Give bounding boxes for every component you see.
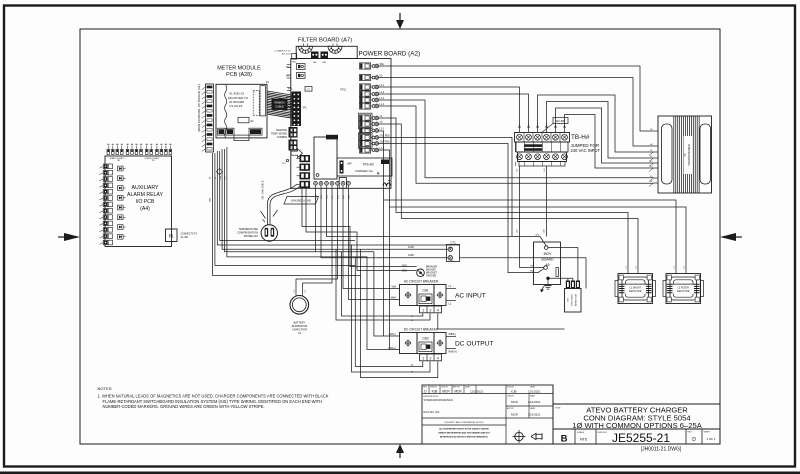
A4 relay symbols K1-K8	[118, 166, 126, 239]
power board A2 outline	[291, 59, 391, 189]
title block property notice	[438, 421, 490, 439]
wire CB1 terminal 1 riser	[342, 252, 423, 316]
svg-text:CB1: CB1	[422, 289, 429, 293]
wire MOV junction to lightning arrestor terminal 1	[548, 278, 573, 280]
svg-text:1 OF 1: 1 OF 1	[706, 437, 716, 441]
svg-text:COMPENSATION: COMPENSATION	[237, 231, 258, 235]
wire TB-H# terminal 4 to transformer X2	[547, 102, 654, 159]
svg-text:WB5(-): WB5(-)	[449, 333, 457, 336]
TB-H# stub labels	[519, 124, 566, 126]
A1 edge connector strip	[202, 84, 214, 152]
svg-text:L1-1: L1-1	[380, 104, 385, 106]
power board left edge pins	[287, 65, 291, 108]
svg-text:BE REPRODUCED WITHOUT WRITTEN: BE REPRODUCED WITHOUT WRITTEN PERMISSION…	[440, 437, 488, 439]
power board bottom connectors	[314, 178, 351, 189]
svg-text:AC CIRCUIT BREAKER: AC CIRCUIT BREAKER	[404, 280, 439, 284]
svg-text:AUXILIARY: AUXILIARY	[131, 185, 159, 191]
svg-text:L2-0: L2-0	[380, 148, 385, 150]
TB-H# jumper bars	[525, 144, 543, 151]
wire power board to inductor L2 lead 1	[378, 131, 676, 271]
A4 P1 callout	[181, 234, 198, 240]
temp probe label	[237, 227, 258, 238]
wire TB-H# terminal 5 to transformer X3	[556, 108, 654, 163]
power supply P/S-A2	[337, 158, 392, 176]
svg-text:ALARM RELAY: ALARM RELAY	[127, 192, 163, 198]
svg-text:CB2: CB2	[422, 337, 429, 341]
lightning arrestor terminals	[566, 281, 580, 289]
wire bundle to CB2 pad GN5+	[227, 147, 400, 350]
testpoint TP3	[285, 73, 305, 79]
MOV board A9	[534, 242, 561, 285]
A28 dashed rect	[253, 91, 259, 116]
wire CB2 terminal 1 riser	[355, 257, 423, 367]
remote temp sense label	[271, 129, 287, 139]
wire MOV to lightning arrestor terminal 3	[548, 248, 578, 281]
svg-text:H1B: H1B	[530, 265, 535, 267]
svg-text:BREAKER: BREAKER	[426, 266, 437, 269]
svg-text:1: 1	[422, 309, 424, 313]
svg-text:4: 4	[437, 357, 439, 361]
svg-text:GN0 POS: GN0 POS	[380, 141, 391, 143]
wire power board stub to MOV bus	[327, 188, 541, 236]
svg-text:12/1/2021: 12/1/2021	[528, 390, 541, 394]
CB2 right wire labels	[446, 333, 457, 353]
svg-text:DWG NO: DWG NO	[598, 432, 608, 434]
svg-text:MOV: MOV	[544, 252, 552, 256]
lower connector stack	[297, 155, 311, 188]
svg-text:(A4): (A4)	[140, 206, 150, 212]
svg-text:▯HP: ▯HP	[347, 163, 352, 166]
svg-text:A1-J08: A1-J08	[181, 236, 189, 239]
svg-text:2W / 24in CABLE: 2W / 24in CABLE	[262, 180, 265, 199]
svg-text:PROBE A10: PROBE A10	[244, 234, 259, 238]
filter board terminal TB2	[321, 52, 329, 64]
title block description cell	[424, 396, 454, 414]
wire power board stub to capacitor C1 lead B	[296, 188, 338, 287]
filter board toroid L-A	[299, 44, 313, 54]
svg-text:L1 SHUNT: L1 SHUNT	[629, 287, 641, 290]
svg-text:L2-1: L2-1	[380, 85, 385, 87]
svg-text:[JH0011-21.DWG]: [JH0011-21.DWG]	[641, 447, 682, 453]
svg-text:DRN BY: DRN BY	[430, 387, 438, 389]
title text	[555, 406, 703, 431]
svg-text:MAIN CONTROL PC BOARD (A1): MAIN CONTROL PC BOARD (A1)	[197, 84, 201, 131]
svg-text:ELIMINATOR: ELIMINATOR	[292, 324, 308, 328]
svg-text:FLAME-RETARDANT SWITCHBOARD IN: FLAME-RETARDANT SWITCHBOARD INSULATION S…	[103, 399, 323, 404]
testpoint TP5 and C2	[288, 87, 312, 92]
svg-text:ARRESTOR: ARRESTOR	[575, 294, 578, 307]
size / scale / dwg no cells	[561, 431, 716, 445]
centering arrow bottom	[396, 444, 404, 458]
wire L2 node down to CB2 pad	[383, 200, 385, 336]
svg-text:MCR: MCR	[511, 413, 519, 417]
svg-text:HEREOF ARE RESERVED AND THIS D: HEREOF ARE RESERVED AND THIS DRAWING MAY…	[438, 432, 490, 435]
ferrite bead	[383, 180, 391, 186]
wire CB2 terminal 4 riser	[361, 249, 438, 377]
centering arrow top	[396, 13, 404, 29]
svg-text:L2 FILTER: L2 FILTER	[678, 287, 690, 290]
inductor L1 shunt	[615, 265, 656, 303]
lightning arrestor A-LA	[565, 289, 582, 313]
svg-text:ALL PROPRIETARY RIGHTS IN THE: ALL PROPRIETARY RIGHTS IN THE SUBJECT MA…	[439, 428, 489, 431]
temp probe strain relief	[261, 210, 278, 222]
svg-text:CAPACITOR: CAPACITOR	[292, 328, 307, 332]
svg-text:CHK BY: CHK BY	[507, 387, 515, 389]
block arrow symbol	[291, 149, 303, 158]
svg-text:101B: 101B	[408, 246, 414, 249]
wire number labels left bundle	[210, 175, 227, 202]
temperature compensation probe A10	[261, 225, 277, 241]
wire unused gnd stack to breaker bracket ground 1	[302, 188, 417, 267]
circuit breaker CB2	[400, 333, 447, 361]
svg-text:DATE: DATE	[530, 386, 536, 389]
svg-text:STANDARD DRAWINGS.: STANDARD DRAWINGS.	[424, 398, 454, 402]
wire CT1 to MOV board	[460, 258, 587, 289]
svg-text:12/1/2021: 12/1/2021	[528, 400, 541, 404]
svg-text:2: 2	[430, 309, 432, 313]
svg-text:P/S-A2: P/S-A2	[363, 163, 374, 167]
svg-text:JUMPER: JUMPER	[277, 136, 287, 139]
transformer T1	[658, 116, 712, 193]
svg-text:KJB: KJB	[511, 390, 517, 394]
svg-text:GN1 RED: GN1 RED	[380, 135, 391, 137]
MOV top terminal	[544, 246, 548, 250]
svg-text:CONNECTS TO: CONNECTS TO	[275, 50, 291, 52]
svg-text:H4A: H4A	[530, 270, 535, 273]
svg-text:A9: A9	[545, 263, 549, 267]
centering arrow right	[720, 233, 742, 241]
svg-text:TP10: TP10	[340, 89, 346, 92]
testpoint TP4	[285, 64, 305, 70]
svg-text:2: 2	[430, 357, 432, 361]
wire power board stub 24v to CT1 terminal 2	[321, 188, 448, 257]
MOV ground symbol	[540, 280, 552, 293]
svg-text:DESCRIPTION: DESCRIPTION	[424, 396, 439, 398]
svg-text:INDUCTOR: INDUCTOR	[629, 290, 642, 293]
filter board toroid L-B	[328, 44, 342, 54]
svg-text:C1▬: C1▬	[449, 247, 453, 249]
wire bundle bus B	[215, 153, 355, 265]
CB2 stub wire labels	[411, 364, 414, 373]
svg-text:DC CIRCUIT BREAKER: DC CIRCUIT BREAKER	[404, 328, 439, 332]
svg-text:C1-: C1-	[305, 289, 307, 292]
ribbon cable label	[272, 99, 288, 111]
current transformer CT1	[447, 240, 460, 261]
svg-text:FILTER BOARD (A7): FILTER BOARD (A7)	[298, 38, 352, 44]
power board bottom wire labels	[315, 194, 350, 199]
wire Y2 power board to inductor L1 lead 2	[378, 124, 638, 271]
svg-text:TITLE: TITLE	[555, 408, 561, 410]
svg-text:P1: P1	[303, 106, 307, 110]
svg-text:L2-1: L2-1	[380, 128, 385, 130]
wire power board to TB-H# terminal 1	[378, 87, 519, 127]
svg-text:METER MODULE: METER MODULE	[217, 66, 261, 72]
A28 note text	[228, 92, 249, 109]
ribbon cable	[267, 91, 292, 118]
relay K block	[314, 135, 338, 179]
splice diamond	[216, 168, 222, 174]
svg-text:C1: C1	[298, 331, 302, 335]
svg-text:V8A: V8A	[380, 63, 385, 66]
svg-text:DATE: DATE	[530, 394, 536, 397]
svg-text:PROPERTY AND CONFIDENTIAL NOTI: PROPERTY AND CONFIDENTIAL NOTICE	[445, 421, 485, 424]
svg-text:TB2: TB2	[117, 160, 120, 162]
bracket ground labels	[402, 264, 408, 272]
TB-H# bottom wire labels H1 H4	[517, 168, 547, 233]
svg-text:I/O PCB: I/O PCB	[135, 199, 155, 205]
svg-text:CABLE: CABLE	[275, 104, 284, 108]
A4 top terminal labels	[110, 157, 160, 162]
power board output connectors	[359, 63, 379, 153]
svg-text:LIGHTNING: LIGHTNING	[572, 294, 574, 306]
svg-text:NUMBER-CODED MARKERS. GROUND W: NUMBER-CODED MARKERS. GROUND WIRES ARE G…	[103, 404, 265, 409]
svg-text:PCB (A28): PCB (A28)	[226, 72, 252, 78]
svg-text:CT1: CT1	[450, 240, 456, 244]
filter board gnd lug	[292, 54, 297, 64]
svg-text:APP BY: APP BY	[453, 386, 461, 389]
wire power board to TB-H# terminal 2	[378, 94, 528, 127]
svg-text:P1 AS P2: P1 AS P2	[230, 104, 243, 108]
svg-text:GROUND: GROUND	[426, 276, 437, 278]
A28 S2 component	[238, 117, 254, 123]
wire GN0 power board to MOV board terminal H4A	[378, 144, 544, 273]
wire bundle bus C	[217, 151, 460, 245]
svg-text:1: 1	[422, 357, 424, 361]
CT1 wire labels	[408, 246, 414, 257]
svg-text:MAGNET: MAGNET	[426, 269, 436, 272]
wire arrestor terminal 2 spur	[572, 278, 574, 280]
TP7 testpoint	[282, 159, 289, 165]
W2 JMP callout	[541, 118, 568, 134]
svg-text:MCR: MCR	[454, 389, 462, 393]
wire TB-H# bottom H4 drop	[545, 166, 547, 237]
notes text	[98, 386, 329, 409]
svg-text:KJB: KJB	[432, 389, 438, 393]
svg-text:C2▬: C2▬	[449, 260, 453, 262]
svg-text:JE5255-21: JE5255-21	[612, 431, 670, 445]
page bottom edge strip	[0, 472, 800, 474]
A4 top terminal strip	[107, 144, 172, 154]
svg-text:APP BY: APP BY	[507, 407, 515, 410]
svg-text:L1-0: L1-0	[380, 92, 385, 94]
svg-text:NOTES:: NOTES:	[98, 386, 113, 391]
A4 connector P1	[166, 229, 178, 242]
transformer pins	[649, 129, 658, 186]
meter module PCB A28 outline	[216, 84, 267, 138]
svg-text:C2: C2	[307, 89, 309, 91]
projection symbols	[513, 430, 543, 443]
wire CB2 terminal 2 riser	[352, 245, 431, 372]
A4 left terminal column	[99, 164, 112, 245]
svg-text:4: 4	[437, 309, 439, 313]
C1 label	[292, 321, 308, 336]
svg-text:SCALE: SCALE	[577, 431, 585, 434]
bracket ground note	[426, 266, 437, 278]
svg-text:D: D	[692, 437, 696, 443]
wire bundle to CT1 terminal 1	[222, 149, 448, 249]
CB1 left wire labels	[391, 286, 397, 300]
svg-text:INDUCTOR: INDUCTOR	[677, 290, 690, 293]
svg-text:NO: NO	[568, 298, 570, 302]
wire unused gnd stack to breaker bracket ground 2	[306, 188, 417, 271]
svg-text:A7-J1,J9: A7-J1,J9	[282, 53, 291, 56]
wire L2 node down to CB2 pad 2	[389, 207, 391, 350]
wire power board stub gnd	[315, 188, 317, 252]
svg-text:BRACKET: BRACKET	[426, 272, 437, 275]
filter board A7 outline	[296, 46, 357, 58]
svg-text:UNUSED GND: UNUSED GND	[291, 199, 312, 203]
svg-text:DC OUTPUT: DC OUTPUT	[455, 341, 493, 348]
svg-text:RW5(+): RW5(+)	[449, 350, 457, 353]
svg-text:CONNECTS TO: CONNECTS TO	[181, 234, 198, 236]
svg-text:104B: 104B	[408, 254, 414, 257]
svg-text:DATE: DATE	[465, 386, 471, 389]
CB1 right wire labels	[446, 285, 456, 306]
svg-text:REV: REV	[688, 432, 693, 434]
remote temp sense connector	[289, 127, 298, 151]
svg-text:DATE: DATE	[530, 407, 536, 410]
MOV left terminal	[544, 266, 548, 270]
svg-text:1Ø WITH COMMON OPTIONS 6–25A: 1Ø WITH COMMON OPTIONS 6–25A	[572, 421, 702, 430]
title block revision row	[423, 386, 484, 394]
svg-text:BATTERY: BATTERY	[294, 321, 306, 325]
svg-text:NTS: NTS	[580, 438, 588, 442]
wire power board stub to CB1 pad W8A	[349, 188, 400, 299]
meter module PCB A28 label	[217, 66, 261, 79]
svg-text:TB-H#: TB-H#	[571, 134, 590, 141]
wire TB-H# terminal 3 to transformer X1	[538, 95, 654, 152]
wire bundle to CB2 pad GN5-	[225, 149, 400, 336]
A4 board text	[127, 185, 163, 212]
MOV inner bar	[556, 268, 559, 277]
centering arrow left	[58, 233, 80, 241]
wire CB1 terminal 2 riser	[336, 249, 430, 320]
filter board terminal TB1	[311, 52, 319, 64]
svg-text:POWER BOARD (A2): POWER BOARD (A2)	[359, 51, 421, 58]
svg-text:12/1/2021: 12/1/2021	[470, 389, 484, 393]
wire H1 power board to transformer pin H1	[378, 66, 653, 131]
wire CB1 terminal 4 to arrestor	[438, 313, 565, 329]
aux alarm relay IO PCB A4 outline	[105, 156, 172, 247]
svg-text:L1-2: L1-2	[380, 98, 385, 100]
svg-text:AC INPUT: AC INPUT	[455, 293, 486, 300]
svg-text:SHEET: SHEET	[704, 432, 711, 434]
svg-text:B: B	[561, 434, 568, 445]
wire bundle bus A	[213, 153, 361, 275]
wire power board to transformer pin X5	[378, 100, 653, 178]
breaker bracket ground terminal	[417, 269, 425, 277]
power board connector P1	[292, 92, 302, 127]
CB2 left wire labels	[388, 333, 396, 350]
title block	[422, 385, 720, 444]
battery eliminator capacitor C1	[290, 287, 309, 314]
power board connector labels	[380, 63, 391, 150]
svg-text:TEMPERATURE: TEMPERATURE	[239, 227, 259, 231]
wire power board to transformer pin X6	[378, 106, 653, 183]
wire MOV top feed diagonal	[540, 237, 546, 246]
svg-text:W2 JMP: W2 JMP	[556, 120, 565, 123]
svg-text:240 VAC INPUT: 240 VAC INPUT	[571, 148, 601, 153]
wire bundle bus D	[220, 151, 355, 241]
svg-text:ECN NO. N/A: ECN NO. N/A	[424, 410, 440, 414]
MOV junction dot	[546, 277, 549, 280]
TB-H# jumper note	[571, 143, 601, 153]
svg-text:TRANSFORMER: TRANSFORMER	[687, 144, 691, 166]
A28 wavy cable	[225, 85, 227, 138]
svg-text:TB1: TB1	[151, 160, 154, 162]
svg-text:P1: P1	[169, 234, 175, 239]
wire power board stub to capacitor C1 lead A	[303, 188, 332, 287]
svg-text:CHK BY: CHK BY	[441, 387, 449, 389]
svg-text:TP5◇: TP5◇	[288, 88, 294, 91]
drawing inner frame	[80, 29, 720, 444]
wire H4 power board to transformer pin H4	[378, 78, 653, 147]
svg-text:MCR: MCR	[511, 400, 519, 404]
A28 bottom connectors	[218, 128, 263, 140]
terminal block TB-H#	[515, 127, 570, 166]
wire TB-H# terminal 6 to transformer X4	[565, 115, 654, 169]
circuit breaker CB1	[400, 285, 447, 313]
unused gnd label	[284, 197, 319, 205]
svg-text:MCR: MCR	[442, 389, 450, 393]
svg-text:CHK BY: CHK BY	[507, 395, 515, 397]
svg-text:12/1/2021: 12/1/2021	[528, 413, 541, 417]
svg-text:CHARGER= A2+: CHARGER= A2+	[355, 170, 374, 173]
CB1 stub wire labels	[411, 316, 414, 322]
wire Y1 power board to inductor L1 lead 1	[378, 118, 628, 271]
svg-text:V8A: V8A	[219, 175, 222, 179]
wire power board stub to CB1 pad V8A	[343, 188, 400, 288]
filter board callout	[275, 50, 292, 55]
A28 right component	[260, 86, 266, 116]
svg-text:1. WHEN NATURAL LEADS OF MAGNE: 1. WHEN NATURAL LEADS OF MAGNETICS ARE N…	[98, 393, 329, 398]
svg-text:RIBBON: RIBBON	[275, 100, 285, 104]
wire power board to inductor L2 lead 2	[378, 150, 686, 271]
wire GN1 power board to MOV bus	[378, 138, 512, 237]
wire TB-H# bottom H1 to MOV board	[520, 166, 544, 267]
inductor L2 filter	[663, 265, 704, 303]
title block check/approve cells	[507, 386, 541, 417]
temp probe cable	[268, 184, 300, 225]
svg-text:GND: GND	[292, 61, 297, 63]
